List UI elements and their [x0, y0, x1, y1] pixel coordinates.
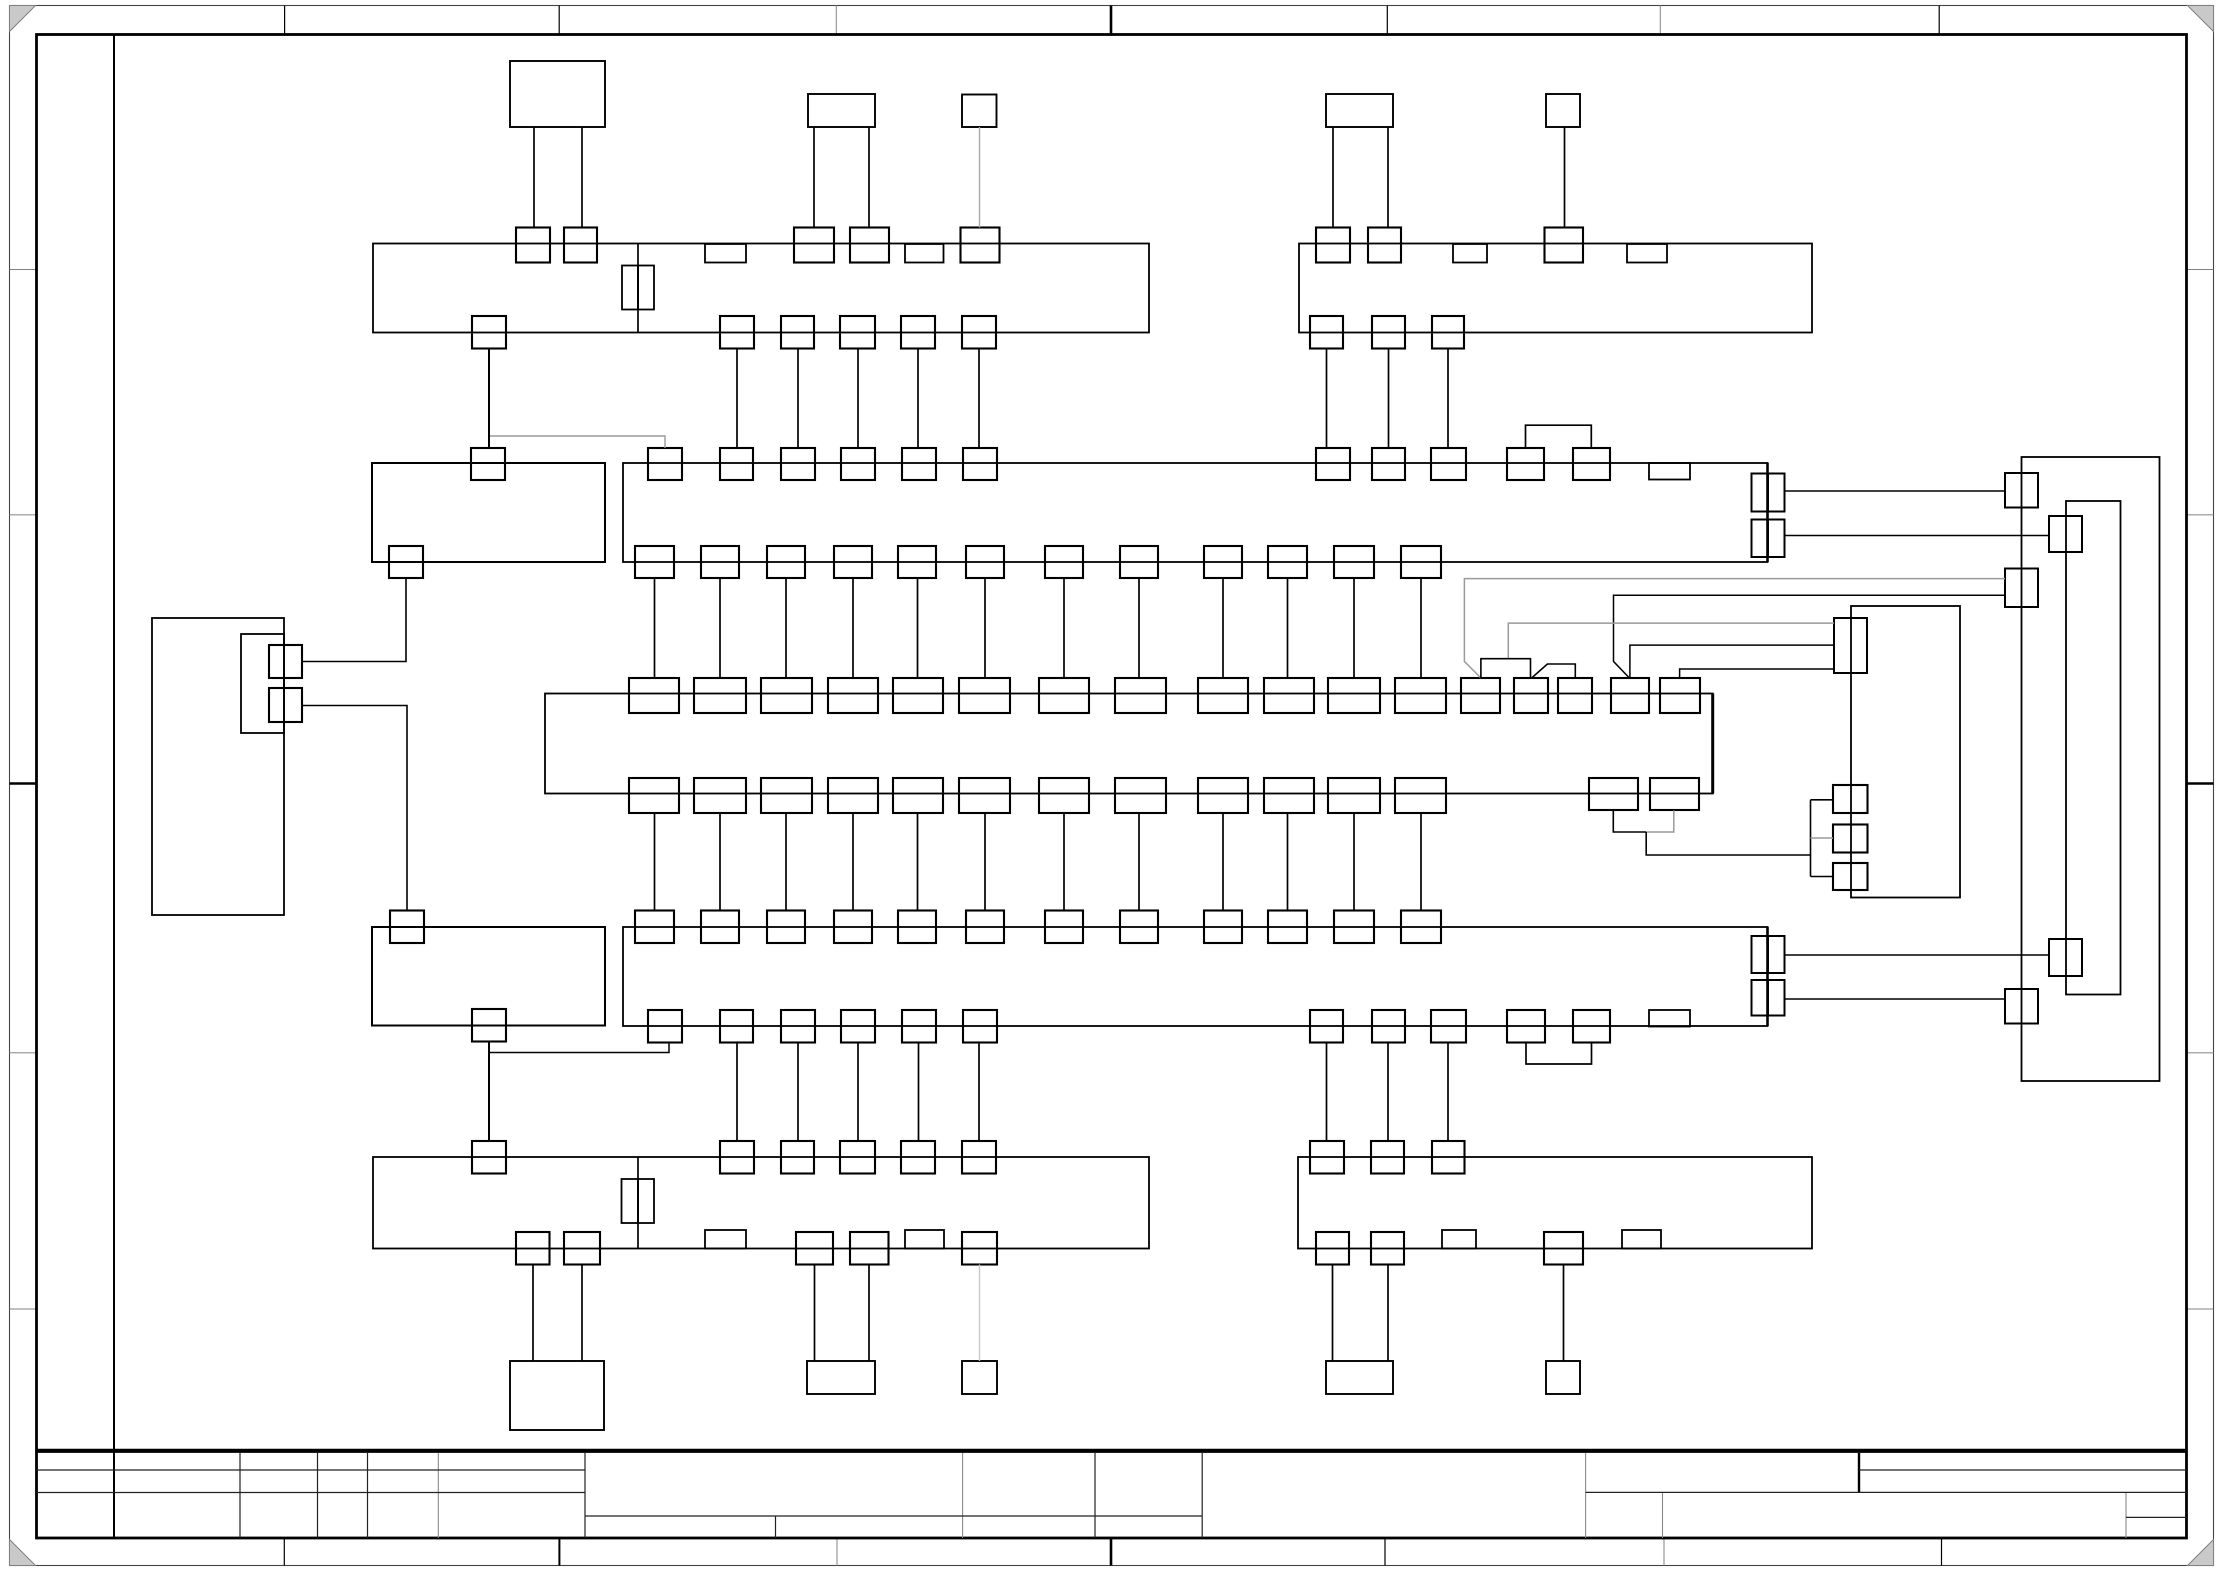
wire X1 to A1 — [797, 349, 799, 449]
fold tick bottom margin — [1663, 1538, 1665, 1566]
wire M1 to X1 pin b — [581, 127, 583, 227]
bracket stub to U2 pin1 — [1811, 799, 1834, 801]
connector pin A2 top — [1045, 911, 1083, 944]
connector pin A2 top — [1120, 911, 1158, 944]
wire M2 to X1 pin d — [868, 127, 870, 227]
wire X1 to A1 — [978, 349, 980, 449]
wire net W2 U2 to jumper gray — [1508, 623, 1834, 659]
terminal strip X2 row1 right — [1299, 244, 1812, 333]
connector pin A1 bottom — [1401, 546, 1441, 578]
fold tick top margin — [284, 6, 286, 35]
connector pin A2 top — [767, 911, 805, 944]
controller pin U1 top — [694, 678, 746, 713]
wire A1 to U1 — [984, 578, 986, 678]
wire branch node to A2 pin1 — [489, 1043, 669, 1053]
title block column line — [1201, 1453, 1203, 1538]
wire branch node to A1 pin1 gray — [490, 436, 665, 448]
terminal pin X3 bottom — [850, 1232, 889, 1265]
wire net W4 U2 to U1 pin16 — [1630, 645, 1834, 678]
terminal pin X4 top — [1310, 1141, 1344, 1174]
fuse F1 in X1 — [622, 266, 638, 310]
connector pin pair A1 right lower — [1752, 520, 1768, 558]
cabinet E1 pin signal — [2005, 569, 2038, 608]
relay K1 coil pin — [471, 448, 505, 480]
fold tick left margin — [10, 514, 37, 516]
title block top rule — [37, 1449, 2187, 1453]
connector pin A1 bottom — [834, 546, 872, 578]
controller pin U1 top — [1461, 678, 1500, 713]
terminal tab X1 top — [905, 244, 944, 263]
interface U2 multi-wire pin — [1834, 618, 1867, 673]
connector pin A1 top — [1372, 448, 1405, 480]
title block row line — [37, 1469, 586, 1471]
wire A1 to U1 — [1420, 578, 1422, 678]
fold tick left margin — [10, 1308, 37, 1310]
interface U2 left pin — [1833, 863, 1868, 890]
interface module U2 right — [1851, 606, 1960, 898]
title block column line — [317, 1453, 319, 1538]
device M4 top right — [1326, 94, 1393, 127]
jumper staple U1 pins 13-14 — [1481, 659, 1531, 678]
wire A1 to U1 — [785, 578, 787, 678]
terminal pin X1 bottom — [781, 316, 814, 349]
connector pin A2 bottom — [841, 1010, 875, 1043]
title block row line — [2126, 1516, 2187, 1518]
controller pin U1 top — [893, 678, 943, 713]
controller pin U1 bottom — [761, 778, 812, 813]
terminal pin X1 bottom — [840, 316, 875, 349]
connector pin A1 top — [841, 448, 875, 480]
wire X3 to M7 b — [868, 1265, 870, 1362]
connector pin A1 top — [648, 448, 682, 480]
fold tick bottom margin — [836, 1538, 838, 1566]
connector pin A2 top — [1401, 911, 1441, 944]
controller unit U1 row3 — [545, 694, 1713, 794]
connector pin A2 bottom — [781, 1010, 815, 1043]
fold tick left margin — [10, 269, 37, 271]
terminal strip X3 row5 left — [373, 1157, 1149, 1249]
wire X1 to K1 coil — [488, 349, 490, 449]
power supply G1 inner section — [241, 634, 284, 733]
terminal pin X3 top — [720, 1141, 754, 1174]
connector pin A1 top — [1573, 448, 1610, 480]
controller pin U1 bottom — [1115, 778, 1166, 813]
controller pin U1 top — [1660, 678, 1700, 713]
wire A2 to X3 — [918, 1043, 920, 1142]
bracket stub to U2 pin3 — [1811, 876, 1834, 878]
device M10 bottom right — [1546, 1361, 1580, 1394]
fold tick bottom margin — [1941, 1538, 1943, 1566]
cabinet frame E1 inner — [2066, 501, 2121, 995]
wire A1 to U1 — [852, 578, 854, 678]
terminal tab X2 top — [1453, 244, 1487, 263]
wire A2 to X3 — [736, 1043, 738, 1142]
wire A1 to U1 — [719, 578, 721, 678]
title block column line short — [1662, 1493, 1664, 1538]
wire U1 to A2 — [1287, 813, 1289, 911]
fold tick bottom margin — [558, 1538, 560, 1566]
controller pin U1 top — [761, 678, 812, 713]
connector pin A2 top — [898, 911, 936, 944]
wire X4 to M9 b — [1387, 1265, 1389, 1362]
terminal pin X4 bottom — [1316, 1232, 1349, 1265]
wire net W3 E1 to U1 pin16 — [1614, 595, 2006, 678]
controller pin U1 top — [629, 678, 679, 713]
device M2 top — [808, 94, 875, 127]
connector pin A2 bottom — [1507, 1010, 1545, 1043]
interface U2 left pin — [1833, 825, 1868, 853]
controller pin U1 bottom — [1198, 778, 1248, 813]
wire A2 to X3 — [978, 1043, 980, 1142]
terminal pin X3 bottom — [516, 1232, 550, 1265]
terminal pin X1 top — [961, 228, 1000, 263]
interface U2 left pin — [1833, 785, 1868, 813]
terminal pin X2 bottom — [1372, 316, 1405, 349]
divider in X3 — [637, 1157, 639, 1249]
terminal pin X3 bottom — [796, 1232, 833, 1265]
cabinet frame E1 outer right — [2022, 457, 2160, 1081]
device M8 bottom — [962, 1361, 997, 1394]
wire X1 to A1 — [917, 349, 919, 449]
connector pin A2 bottom — [1431, 1010, 1466, 1043]
terminal pin X2 top — [1545, 228, 1584, 263]
title block column line short — [2125, 1493, 2127, 1538]
fold tick top margin — [1938, 6, 1940, 35]
wire M4 to X2 pin b — [1387, 127, 1389, 227]
connector pin A1 bottom — [1204, 546, 1242, 578]
controller pin U1 top — [1115, 678, 1166, 713]
wire X4 to M9 a — [1332, 1265, 1334, 1362]
terminal pin X1 bottom — [472, 316, 506, 349]
connector pin A1 top — [1507, 448, 1544, 480]
terminal pin X1 top — [850, 228, 889, 263]
wire A2 to X4 — [1447, 1043, 1449, 1142]
controller pin U1 top — [1264, 678, 1314, 713]
controller pin U1 bottom — [694, 778, 746, 813]
wire A1 to U1 — [1138, 578, 1140, 678]
title block column line — [1094, 1453, 1096, 1538]
fold tick bottom margin — [1110, 1538, 1113, 1566]
connector pin pair A2 right lower — [1752, 980, 1768, 1016]
wire A2 pair to E1 inner — [1785, 954, 2050, 956]
bracket stub to U2 pin2 gray — [1811, 837, 1834, 839]
connector pin A2 top — [966, 911, 1004, 944]
terminal pin X4 bottom — [1371, 1232, 1404, 1265]
controller pin U1 bottom — [1264, 778, 1314, 813]
title block column line — [367, 1453, 369, 1538]
terminal pin X1 bottom — [962, 316, 996, 349]
terminal pin X3 top — [901, 1141, 935, 1174]
terminal strip X4 row5 right — [1298, 1157, 1812, 1249]
connector pin A1 bottom — [966, 546, 1004, 578]
title block row line — [1586, 1491, 2187, 1493]
wire X2 to A1 — [1447, 349, 1449, 449]
relay K2 input pin — [390, 911, 424, 944]
wire A1 to U1 — [917, 578, 919, 678]
terminal pin X3 top — [781, 1141, 814, 1174]
title block row line — [37, 1492, 586, 1494]
connector pin A2 bottom — [648, 1010, 682, 1043]
terminal pin X1 top — [794, 228, 834, 263]
connector row A2 row4 — [623, 927, 1768, 1026]
controller pin U1 bottom — [893, 778, 943, 813]
terminal pin X1 bottom — [720, 316, 754, 349]
connector pin A2 top — [635, 911, 674, 944]
wire U1 to A2 — [1063, 813, 1065, 911]
terminal tab X3 bottom — [705, 1230, 746, 1249]
device M5 top right — [1546, 94, 1580, 127]
wire M3 to X1 faint — [979, 127, 981, 228]
wire U1 to A2 — [1420, 813, 1422, 911]
connector pin A1 bottom — [1268, 546, 1307, 578]
title block column line — [962, 1453, 964, 1538]
fold tick top margin — [558, 6, 560, 35]
terminal pin X4 bottom — [1544, 1232, 1583, 1265]
relay module K2 — [372, 927, 605, 1026]
terminal pin X1 top — [564, 228, 597, 263]
wire A1 pair to E1 outer — [1785, 490, 2006, 492]
wire U1 to A2 — [852, 813, 854, 911]
terminal pin X4 top — [1371, 1141, 1404, 1174]
terminal pin X4 top — [1432, 1141, 1465, 1174]
wire net W5 U2 to U1 pin17 — [1680, 669, 1834, 679]
title block column line — [437, 1453, 439, 1538]
terminal pin X2 top — [1316, 228, 1350, 263]
wire M1 to X1 pin a — [533, 127, 535, 227]
cabinet E1 pin lower inner — [2049, 939, 2082, 976]
controller pin U1 top — [1395, 678, 1446, 713]
jumper staple A2 bottom right — [1526, 1043, 1592, 1065]
power supply G1 pin 2 — [269, 688, 302, 722]
fold tick right margin — [2187, 514, 2214, 516]
connector pin A2 top — [1334, 911, 1374, 944]
device M6 bottom left — [510, 1361, 604, 1430]
fold tick left margin — [10, 1052, 37, 1054]
connector pin A2 top — [1204, 911, 1242, 944]
connector pin A1 top — [1431, 448, 1466, 480]
connector pin A1 bottom — [1334, 546, 1374, 578]
controller pin U1 top — [828, 678, 878, 713]
wire X3 to M6 b — [581, 1265, 583, 1362]
connector pin pair A2 right upper — [1752, 936, 1768, 973]
corner trim triangle bottom-right — [2188, 1540, 2214, 1566]
connector pin A2 bottom — [1573, 1010, 1610, 1043]
connector row A2 right edge — [1766, 927, 1769, 1026]
controller pin U1 top — [1558, 678, 1592, 713]
wire X4 to M10 — [1563, 1265, 1565, 1362]
connector pin pair A1 right upper — [1752, 474, 1768, 512]
jumper staple U1 pins 14-15 — [1532, 664, 1576, 678]
connector tab A2 bottom — [1649, 1010, 1690, 1027]
cabinet E1 pin lower outer — [2005, 989, 2038, 1024]
wire X3 to M6 a — [532, 1265, 534, 1362]
connector pin A1 top — [1316, 448, 1350, 480]
wire A2 to X3 — [857, 1043, 859, 1142]
connector pin A2 top — [701, 911, 739, 944]
controller pin U1 bottom — [1328, 778, 1380, 813]
connector pin A1 bottom — [1120, 546, 1158, 578]
wire U1 to A2 — [1222, 813, 1224, 911]
connector pin A1 top — [963, 448, 997, 480]
terminal pin X3 top — [840, 1141, 875, 1174]
title block column line thick — [1858, 1453, 1860, 1493]
title block column line — [584, 1453, 586, 1538]
connector pin A2 bottom — [1310, 1010, 1343, 1043]
controller pin U1 top — [1328, 678, 1380, 713]
fuse F2 in X3 — [622, 1179, 639, 1223]
device M9 bottom right — [1326, 1361, 1393, 1394]
connector pin A1 bottom — [1045, 546, 1083, 578]
jumper staple U1 bottom pins gray half — [1646, 811, 1674, 833]
relay K1 output pin — [389, 546, 423, 578]
terminal pin X1 bottom — [901, 316, 935, 349]
cabinet E1 pin upper inner — [2049, 516, 2082, 552]
controller pin U1 bottom — [1650, 778, 1699, 810]
wire A2 pair to E1 outer — [1785, 998, 2006, 1000]
connector pin A2 bottom — [1372, 1010, 1405, 1043]
connector pin A2 bottom — [720, 1010, 753, 1043]
power supply G1 left block — [152, 618, 284, 915]
wire U1 to A2 — [1353, 813, 1355, 911]
title block column line short — [775, 1516, 777, 1538]
fold tick bottom margin — [1384, 1538, 1386, 1566]
controller pin U1 top — [1514, 678, 1548, 713]
connector pin A1 top — [902, 448, 936, 480]
divider in X1 — [637, 244, 639, 333]
fold tick top margin — [1386, 6, 1388, 35]
connector row A1 row2 — [623, 463, 1768, 562]
wire A2 to X3 — [797, 1043, 799, 1142]
frame left column divider — [113, 35, 115, 1539]
connector pin A2 top — [1268, 911, 1307, 944]
corner trim triangle top-left — [10, 6, 36, 32]
connector pin A2 bottom — [963, 1010, 997, 1043]
device M1 top left — [510, 61, 605, 127]
title block row line — [1859, 1469, 2187, 1471]
fold tick right margin — [2187, 782, 2214, 785]
device M7 bottom — [807, 1361, 875, 1394]
connector row A1 right edge — [1766, 463, 1769, 562]
cabinet E1 pin upper outer — [2005, 473, 2038, 508]
connector pin A1 bottom — [701, 546, 739, 578]
fold tick bottom margin — [283, 1538, 285, 1566]
connector pin A1 bottom — [898, 546, 936, 578]
wire U1 to A2 — [785, 813, 787, 911]
relay module K1 — [372, 463, 605, 562]
wire U1 to A2 — [654, 813, 656, 911]
connector pin A1 top — [781, 448, 815, 480]
terminal tab X2 top — [1627, 244, 1667, 263]
terminal tab X4 bottom — [1622, 1230, 1661, 1249]
connector pin A1 bottom — [635, 546, 674, 578]
wire X3 to M7 a — [814, 1265, 816, 1362]
terminal tab X3 bottom — [905, 1230, 944, 1249]
fold tick right margin — [2187, 1308, 2214, 1310]
controller pin U1 top — [1611, 678, 1649, 713]
fold tick left margin — [10, 782, 37, 785]
wire K2 to X3 — [488, 1042, 490, 1142]
relay K2 output pin — [472, 1009, 506, 1042]
terminal tab X4 bottom — [1442, 1230, 1476, 1249]
connector pin A2 bottom — [902, 1010, 936, 1043]
wire A2 to X4 — [1326, 1043, 1328, 1142]
wire A1 to U1 — [654, 578, 656, 678]
wire X1 to A1 — [736, 349, 738, 449]
power supply G1 pin 1 — [269, 645, 302, 678]
controller pin U1 top — [1198, 678, 1248, 713]
terminal pin X3 top — [962, 1141, 996, 1174]
wire A1 to U1 — [1063, 578, 1065, 678]
wire X2 to A1 — [1388, 349, 1390, 449]
connector pin A2 top — [834, 911, 872, 944]
fold tick top margin — [1110, 6, 1113, 35]
terminal pin X3 top — [472, 1141, 506, 1174]
controller pin U1 bottom — [629, 778, 679, 813]
connector pin A1 top — [720, 448, 753, 480]
terminal strip X1 row1 left — [373, 244, 1149, 333]
bus bracket U2 pins — [1810, 800, 1812, 877]
wire X3 to M8 faint — [979, 1265, 981, 1362]
wire U1 to A2 — [917, 813, 919, 911]
connector pin A1 bottom — [767, 546, 805, 578]
wire A1 to U1 — [1287, 578, 1289, 678]
wire X1 to A1 — [857, 349, 859, 449]
corner trim triangle bottom-left — [10, 1540, 36, 1566]
controller U1 right edge — [1711, 694, 1714, 794]
terminal pin X2 bottom — [1310, 316, 1343, 349]
terminal pin X3 bottom — [564, 1232, 600, 1265]
wire G1 pin2 to K2 — [302, 706, 407, 911]
wire A2 to X4 — [1387, 1043, 1389, 1142]
terminal pin X2 top — [1368, 228, 1401, 263]
terminal pin X2 bottom — [1432, 316, 1464, 349]
terminal pin X1 top — [516, 228, 550, 263]
title block column line — [239, 1453, 241, 1538]
controller pin U1 bottom — [828, 778, 878, 813]
terminal pin X3 bottom — [962, 1232, 997, 1265]
jumper staple A1 top right — [1526, 425, 1592, 448]
jumper staple U1 bottom pins — [1613, 811, 1646, 833]
wire U1 jumper to U2 bracket — [1646, 832, 1810, 855]
fold tick right margin — [2187, 269, 2214, 271]
wire A1 to U1 — [1222, 578, 1224, 678]
corner trim triangle top-right — [2188, 6, 2214, 32]
device M3 top — [962, 95, 997, 128]
fold tick right margin — [2187, 1052, 2214, 1054]
wire A1 pair to E1 inner — [1785, 535, 2050, 537]
wire M4 to X2 pin a — [1332, 127, 1334, 227]
fold tick top margin — [835, 6, 837, 35]
terminal tab X1 top — [705, 244, 746, 263]
title block column line — [1585, 1453, 1587, 1538]
wire A1 to U1 — [1353, 578, 1355, 678]
fold tick top margin — [1659, 6, 1661, 35]
controller pin U1 bottom — [1039, 778, 1089, 813]
wire X2 to A1 — [1326, 349, 1328, 449]
controller pin U1 top — [1039, 678, 1089, 713]
controller pin U1 top — [959, 678, 1010, 713]
wire M2 to X1 pin c — [813, 127, 815, 227]
wire U1 to A2 — [1138, 813, 1140, 911]
controller pin U1 bottom — [959, 778, 1010, 813]
wire M5 to X2 pin c — [1564, 127, 1566, 227]
controller pin U1 bottom — [1589, 778, 1638, 810]
wire U1 to A2 — [719, 813, 721, 911]
title block row line — [585, 1515, 1202, 1517]
controller pin U1 bottom — [1395, 778, 1446, 813]
wire G1 pin1 to K1 — [302, 578, 406, 662]
connector tab A1 top — [1649, 463, 1690, 480]
